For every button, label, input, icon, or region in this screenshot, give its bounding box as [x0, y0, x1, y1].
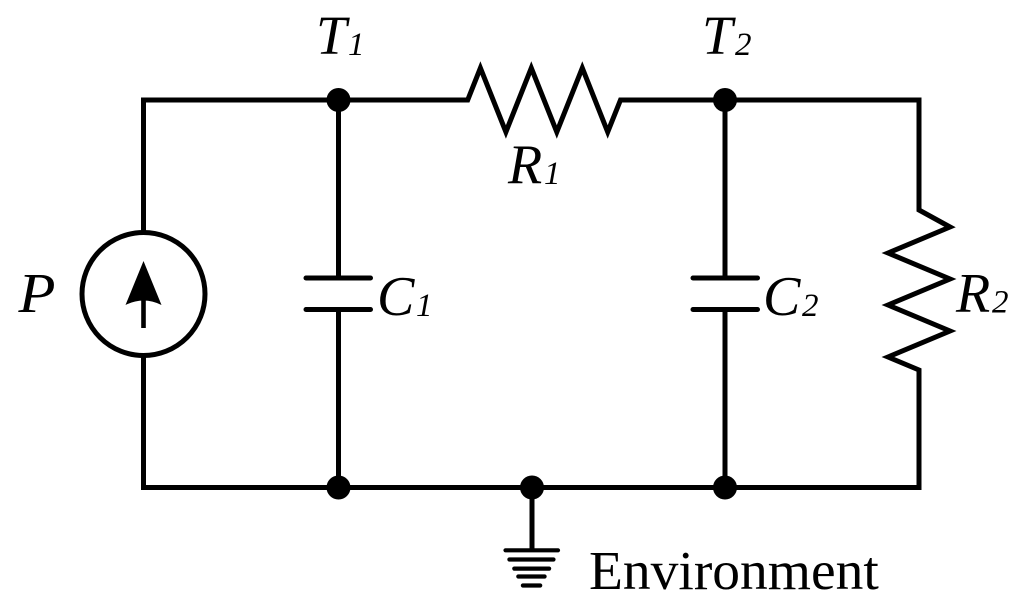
svg-text:2: 2 — [992, 285, 1009, 321]
svg-text:R: R — [955, 263, 990, 325]
svg-text:C: C — [763, 266, 801, 328]
svg-text:P: P — [17, 263, 55, 325]
svg-text:C: C — [377, 266, 415, 328]
svg-text:R: R — [507, 134, 542, 196]
svg-text:Environment: Environment — [589, 541, 879, 602]
svg-text:2: 2 — [735, 27, 752, 63]
svg-text:T: T — [316, 5, 350, 66]
svg-text:1: 1 — [348, 27, 365, 63]
svg-text:1: 1 — [544, 156, 561, 192]
svg-text:T: T — [702, 5, 736, 66]
svg-text:2: 2 — [802, 288, 819, 324]
svg-text:1: 1 — [416, 288, 433, 324]
